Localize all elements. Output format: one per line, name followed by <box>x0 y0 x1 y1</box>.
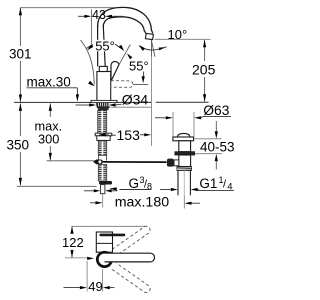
svg-text:Ø63: Ø63 <box>203 103 229 118</box>
svg-text:G: G <box>129 176 140 191</box>
svg-text:max.180: max.180 <box>115 195 170 211</box>
dashed spout positions <box>112 226 150 292</box>
svg-text:300: 300 <box>38 132 59 147</box>
dim O63 <box>155 103 231 137</box>
dim 301 <box>7 8 33 102</box>
lever top view <box>101 234 124 237</box>
55 deg annotation (handle lift) <box>81 39 125 87</box>
base striped shank (O34) <box>96 103 109 110</box>
svg-text:40-53: 40-53 <box>200 139 235 154</box>
svg-text:8: 8 <box>147 182 152 192</box>
55 deg annotation (second) <box>119 45 148 85</box>
svg-text:Ø34: Ø34 <box>122 91 149 107</box>
dim 49 <box>64 261 115 294</box>
thread band <box>177 167 192 171</box>
svg-text:10°: 10° <box>168 27 188 42</box>
washer under counter <box>97 106 110 108</box>
rod connector <box>174 160 179 166</box>
top extension line <box>72 225 148 227</box>
svg-text:55°: 55° <box>95 39 115 54</box>
aerator block <box>145 33 153 39</box>
svg-text:4: 4 <box>227 182 232 193</box>
svg-text:55°: 55° <box>129 59 149 74</box>
counter line <box>14 101 209 103</box>
dim 205 <box>190 40 218 102</box>
supply pipe lower (hatched) <box>98 155 112 193</box>
threaded shank <box>98 110 107 133</box>
body top view <box>96 232 124 252</box>
svg-text:350: 350 <box>7 138 30 153</box>
swivel ring <box>97 252 111 266</box>
dim O34 <box>76 91 149 107</box>
svg-text:49: 49 <box>88 279 102 294</box>
ball knob <box>167 159 174 167</box>
svg-text:43: 43 <box>92 8 106 22</box>
svg-text:max.30: max.30 <box>27 75 71 90</box>
solid lever (raised) <box>111 61 119 80</box>
svg-text:G1: G1 <box>199 176 217 191</box>
dim 153 <box>99 57 152 147</box>
supply pipe upper (hatched) <box>98 141 106 155</box>
spout top view <box>105 253 155 262</box>
mounting nut <box>95 133 116 140</box>
dome <box>178 133 190 137</box>
10 deg annotation <box>139 27 211 57</box>
flange <box>173 137 194 141</box>
label max.30 with leader <box>27 75 80 102</box>
outlet tube <box>178 171 190 196</box>
svg-text:153: 153 <box>117 127 141 143</box>
dim 43 <box>78 8 123 44</box>
dim 350 <box>5 103 97 186</box>
body upper <box>179 141 191 152</box>
dim max.300 <box>33 103 95 160</box>
dim G3/8 small arrows <box>84 189 118 192</box>
dashed lever (horizontal) <box>111 81 133 88</box>
dim 122 <box>61 226 95 260</box>
svg-text:122: 122 <box>62 235 84 250</box>
dim max.180 <box>90 194 200 211</box>
collar <box>175 152 195 155</box>
spout gooseneck <box>98 7 153 33</box>
escutcheon <box>91 100 117 102</box>
svg-text:301: 301 <box>9 46 32 61</box>
body lower <box>179 155 191 167</box>
dim G1 1/4 <box>160 175 234 193</box>
top extension line <box>20 7 117 9</box>
dim 40-53 <box>195 121 235 170</box>
horizontal pop-up rod <box>93 160 166 165</box>
faucet body <box>97 25 111 101</box>
svg-text:205: 205 <box>192 62 216 78</box>
label G3/8 <box>109 175 152 192</box>
